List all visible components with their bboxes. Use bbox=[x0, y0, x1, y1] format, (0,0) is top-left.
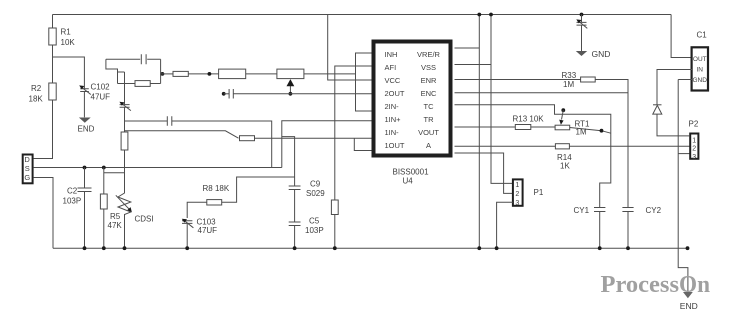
svg-text:103P: 103P bbox=[63, 197, 82, 206]
svg-text:1M: 1M bbox=[563, 80, 574, 89]
svg-text:GND: GND bbox=[592, 49, 611, 59]
photoresistor CDSI bbox=[124, 150, 126, 191]
svg-text:A: A bbox=[426, 141, 431, 150]
svg-text:1IN+: 1IN+ bbox=[385, 115, 402, 124]
svg-text:OUT: OUT bbox=[693, 56, 707, 63]
node bbox=[208, 72, 212, 76]
svg-text:Process: Process bbox=[601, 272, 680, 298]
connector P1 bbox=[513, 179, 523, 205]
svg-text:C1: C1 bbox=[697, 31, 708, 40]
capacitor C2 bbox=[83, 166, 87, 170]
svg-text:CDSI: CDSI bbox=[135, 215, 154, 224]
resistor R2 bbox=[49, 83, 56, 100]
svg-text:C5: C5 bbox=[309, 217, 320, 226]
svg-text:1K: 1K bbox=[560, 162, 570, 171]
wire feedback loop stage1 bbox=[106, 58, 161, 60]
svg-text:INH: INH bbox=[385, 50, 398, 59]
svg-text:2IN-: 2IN- bbox=[385, 102, 400, 111]
capacitor CY2 bbox=[622, 208, 633, 212]
svg-text:S: S bbox=[25, 164, 30, 173]
wire A to S rail drop bbox=[125, 121, 272, 168]
wire 1OUT bracket bbox=[354, 138, 372, 150]
wire ground rail end node bbox=[686, 246, 690, 250]
svg-text:R1: R1 bbox=[61, 28, 72, 37]
svg-text:R8 18K: R8 18K bbox=[203, 184, 230, 193]
svg-text:P1: P1 bbox=[534, 188, 544, 197]
resistor (large 1) bbox=[219, 69, 246, 79]
resistor R14 bbox=[455, 145, 556, 147]
svg-text:D: D bbox=[24, 155, 30, 164]
ground END below C102 bbox=[79, 118, 91, 123]
wire S rail bbox=[34, 167, 282, 169]
capacitor C9 bbox=[289, 186, 301, 190]
capacitor C103 bbox=[182, 221, 192, 224]
wire loop right leg bbox=[160, 59, 162, 83]
resistor R1 bbox=[52, 15, 54, 29]
svg-text:47UF: 47UF bbox=[91, 93, 111, 102]
wire VCC riser bbox=[328, 15, 372, 81]
svg-text:GND: GND bbox=[692, 77, 707, 84]
svg-text:C102: C102 bbox=[91, 83, 111, 92]
svg-text:VCC: VCC bbox=[385, 76, 401, 85]
diode D1 bbox=[653, 104, 662, 106]
svg-text:103P: 103P bbox=[305, 226, 324, 235]
resistor (series small) bbox=[161, 73, 173, 75]
svg-text:2: 2 bbox=[515, 191, 519, 198]
svg-text:BISS0001: BISS0001 bbox=[393, 168, 430, 177]
capacitor C5 bbox=[289, 222, 301, 226]
wire C1 GND drop to P2 pin3 and END bbox=[678, 79, 692, 81]
connector P2 bbox=[690, 134, 698, 159]
wire TC path to CY1 bbox=[455, 105, 611, 208]
svg-text:VSS: VSS bbox=[421, 63, 436, 72]
svg-text:TR: TR bbox=[424, 115, 435, 124]
capacitor C (stage1 feedback) bbox=[141, 54, 146, 64]
svg-text:CY1: CY1 bbox=[574, 206, 590, 215]
svg-text:R5: R5 bbox=[110, 212, 121, 221]
wire ENC stub bbox=[455, 92, 629, 94]
wire A stub to P1 pin2 bbox=[455, 153, 513, 193]
svg-text:3: 3 bbox=[515, 200, 519, 207]
svg-text:AFI: AFI bbox=[385, 63, 397, 72]
svg-text:18K: 18K bbox=[29, 95, 44, 104]
wire R2 down to D pin bbox=[34, 100, 53, 159]
resistor R13 bbox=[455, 126, 516, 128]
wire top rail to C1 OUT bbox=[671, 15, 692, 58]
svg-text:On: On bbox=[679, 272, 710, 298]
wire 2OUT bbox=[233, 93, 372, 95]
connector C1 bbox=[692, 47, 708, 90]
wire loop left leg bbox=[106, 59, 118, 83]
wire top supply rail bbox=[53, 14, 672, 16]
wire C1 IN to diode bbox=[657, 70, 692, 105]
wire VRE/R stub bbox=[455, 47, 480, 49]
svg-text:IN: IN bbox=[696, 67, 703, 74]
svg-text:47K: 47K bbox=[108, 221, 123, 230]
wire AFI drop bbox=[335, 66, 372, 200]
svg-text:47UF: 47UF bbox=[198, 226, 218, 235]
svg-text:1: 1 bbox=[515, 182, 519, 189]
wire S riser to 1IN+ bbox=[282, 121, 372, 168]
svg-text:2OUT: 2OUT bbox=[385, 89, 405, 98]
svg-text:VRE/R: VRE/R bbox=[417, 50, 441, 59]
resistor R33 bbox=[455, 79, 581, 81]
svg-text:END: END bbox=[680, 301, 698, 311]
ground END (bottom right) bbox=[683, 292, 693, 298]
svg-text:ENC: ENC bbox=[421, 89, 437, 98]
capacitor CY1 bbox=[594, 208, 605, 212]
wire branch to C102 bbox=[53, 57, 85, 89]
svg-text:U4: U4 bbox=[403, 177, 414, 186]
resistor R8 bbox=[222, 177, 295, 202]
potentiometer (large 2 with wiper arrow) bbox=[277, 69, 304, 79]
resistor (stage1 feedback) bbox=[118, 83, 161, 85]
wire B to 1IN- bbox=[125, 131, 239, 138]
svg-text:10K: 10K bbox=[61, 38, 76, 47]
capacitor + node on 2OUT wire bbox=[222, 92, 226, 96]
svg-text:1: 1 bbox=[692, 137, 696, 144]
wire main vertical (VRE/R net) bbox=[478, 15, 480, 249]
resistor (AFI to ground) bbox=[331, 200, 338, 215]
potentiometer RT1 bbox=[555, 125, 570, 130]
svg-text:S029: S029 bbox=[306, 189, 325, 198]
resistor R5 bbox=[102, 166, 106, 170]
svg-text:TC: TC bbox=[424, 102, 435, 111]
wire INH / 2IN- bracket bbox=[356, 53, 372, 111]
wire jog to C9 column bbox=[282, 137, 295, 186]
svg-text:VOUT: VOUT bbox=[418, 128, 439, 137]
svg-text:3: 3 bbox=[692, 154, 696, 161]
wire P1 pin3 to ground bbox=[497, 202, 513, 248]
op-amp IC U4 BISS0001 bbox=[374, 42, 451, 156]
svg-text:R2: R2 bbox=[31, 84, 42, 93]
wire VSS stub to P1 pin1 bbox=[455, 64, 492, 66]
svg-text:ENR: ENR bbox=[421, 76, 437, 85]
wire G pin down to ground rail bbox=[34, 178, 53, 249]
capacitor C102 bbox=[80, 89, 89, 92]
svg-text:C9: C9 bbox=[310, 180, 321, 189]
node (stage1 out) bbox=[161, 72, 165, 76]
svg-text:1OUT: 1OUT bbox=[385, 141, 405, 150]
connector DSG (PIR sensor) bbox=[23, 155, 33, 184]
svg-text:1IN-: 1IN- bbox=[385, 128, 400, 137]
capacitor (electrolytic on node column) bbox=[124, 72, 126, 105]
wire R1 to R2 bbox=[52, 45, 54, 83]
svg-text:P2: P2 bbox=[689, 120, 699, 129]
capacitor + ground GND (top) bbox=[580, 13, 584, 17]
svg-text:C2: C2 bbox=[67, 187, 78, 196]
svg-text:G: G bbox=[24, 173, 30, 182]
svg-text:CY2: CY2 bbox=[646, 206, 662, 215]
resistor (series in 1IN- path) bbox=[240, 136, 255, 141]
svg-text:R13 10K: R13 10K bbox=[513, 115, 545, 124]
capacitor (series in wire A) bbox=[167, 116, 172, 125]
svg-text:2: 2 bbox=[692, 146, 696, 153]
svg-text:END: END bbox=[78, 125, 95, 134]
wire bottom ground rail bbox=[53, 247, 688, 249]
resistor (node column vertical) bbox=[121, 132, 128, 150]
svg-text:R33: R33 bbox=[562, 71, 577, 80]
